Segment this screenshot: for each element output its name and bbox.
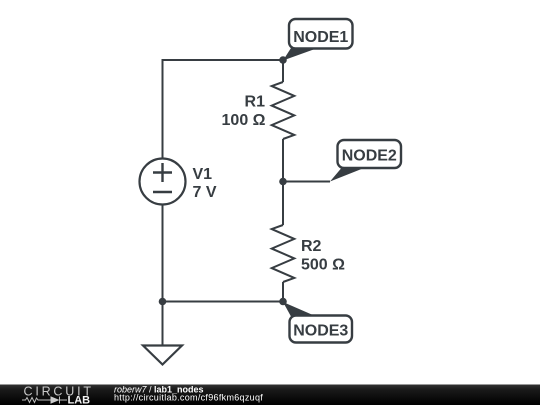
wire from R1 bottom to NODE2 junction [282,139,284,182]
resistor R2 [272,225,295,282]
svg-text:100 Ω: 100 Ω [222,112,266,129]
svg-text:NODE3: NODE3 [293,323,348,340]
svg-text:http://circuitlab.com/cf96fkm6: http://circuitlab.com/cf96fkm6qzuqf [114,393,263,403]
bottom wire from V1 branch to NODE3 junction [163,301,284,303]
CircuitLab logo diode triangle [51,396,60,403]
svg-text:LAB: LAB [68,395,91,406]
footer bar [0,385,540,406]
ground [143,346,182,365]
junction dot at ground branch [159,298,167,306]
wire from V1 bottom to ground [162,205,164,346]
wire from V1 top to NODE1 junction (left vertical + top horizontal) [163,60,284,159]
node NODE2 callout [330,140,401,182]
junction dot at NODE2 [279,178,287,186]
svg-text:R2: R2 [301,238,322,255]
wire stub to NODE2 callout [283,181,330,183]
voltage source V1 [140,159,186,205]
svg-text:R1: R1 [245,94,266,111]
junction dot at NODE3 [279,298,287,306]
wire from NODE2 junction to R2 top [282,182,284,226]
junction dot at NODE1 [279,56,287,64]
svg-text:500 Ω: 500 Ω [301,257,345,274]
svg-text:V1: V1 [193,166,213,183]
node NODE1 callout [283,19,353,61]
node NODE3 callout [283,302,352,343]
svg-text:NODE2: NODE2 [342,148,397,165]
CircuitLab logo schematic line (resistor + diode) [22,397,67,404]
wire from NODE1 junction down to R1 top [282,60,284,82]
svg-text:7 V: 7 V [193,184,217,201]
resistor R1 [272,82,295,139]
svg-text:NODE1: NODE1 [293,29,348,46]
wire from R2 bottom to NODE3 junction [282,282,284,302]
